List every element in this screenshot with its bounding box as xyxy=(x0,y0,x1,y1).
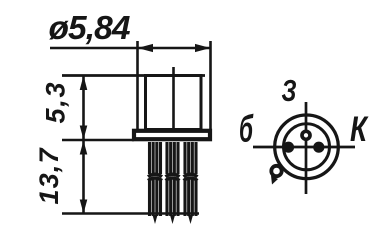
lead 1 lower segment xyxy=(150,179,161,217)
lead 2 (middle) upper segment xyxy=(167,142,178,174)
pinout view: inner circle xyxy=(284,124,330,170)
arrowhead up at flange bottom xyxy=(80,141,88,155)
can flange xyxy=(134,131,210,139)
transistor can body xyxy=(146,76,202,130)
pinout view: outer circle xyxy=(275,115,339,179)
lead 1 (left) upper segment xyxy=(150,142,161,174)
svg-text:б: б xyxy=(239,109,254,151)
lead break marks xyxy=(148,174,198,180)
svg-text:К: К xyxy=(350,110,369,149)
lead 3 lower segment xyxy=(185,179,196,217)
lead 2 lower segment xyxy=(167,179,178,217)
pinout key tab tail xyxy=(271,176,278,185)
svg-text:13,7: 13,7 xyxy=(34,147,64,205)
wire: extension line at lead ends (y=213.5) xyxy=(62,212,199,215)
wire: leader/dimension line for Ø5,84 xyxy=(50,47,211,50)
arrowhead left of Ø5,84 dimension xyxy=(138,44,154,52)
can centerline xyxy=(172,67,175,129)
lead 2 tip xyxy=(170,215,175,224)
crosshair horizontal xyxy=(253,146,355,149)
arrowhead right of Ø5,84 dimension xyxy=(195,44,211,52)
pinout key tab xyxy=(271,166,281,176)
lead 3 (right) upper segment xyxy=(185,142,196,174)
extension line right (flange diameter) xyxy=(209,41,212,130)
pin base dot (left) xyxy=(283,142,294,153)
lead 1 tip xyxy=(153,215,158,224)
arrowhead down at flange bottom xyxy=(80,126,88,140)
wire: extension line at flange bottom (y=140) xyxy=(62,139,134,142)
arrowhead down at lead ends xyxy=(80,200,88,214)
lead 3 tip xyxy=(188,215,193,224)
pin collector dot (right) xyxy=(313,142,324,153)
extension line left (flange diameter) xyxy=(136,41,139,130)
svg-text:З: З xyxy=(282,73,297,108)
vertical dimension line (5,3 / 13,7 chain) xyxy=(82,76,85,214)
arrowhead up at can top xyxy=(80,76,88,91)
pin emitter (top, ring) xyxy=(302,131,310,139)
crosshair vertical xyxy=(305,102,308,194)
wire: extension line at can top (y=75) xyxy=(62,74,205,77)
svg-text:5,3: 5,3 xyxy=(41,83,71,124)
svg-text:ø5,84: ø5,84 xyxy=(49,10,131,47)
